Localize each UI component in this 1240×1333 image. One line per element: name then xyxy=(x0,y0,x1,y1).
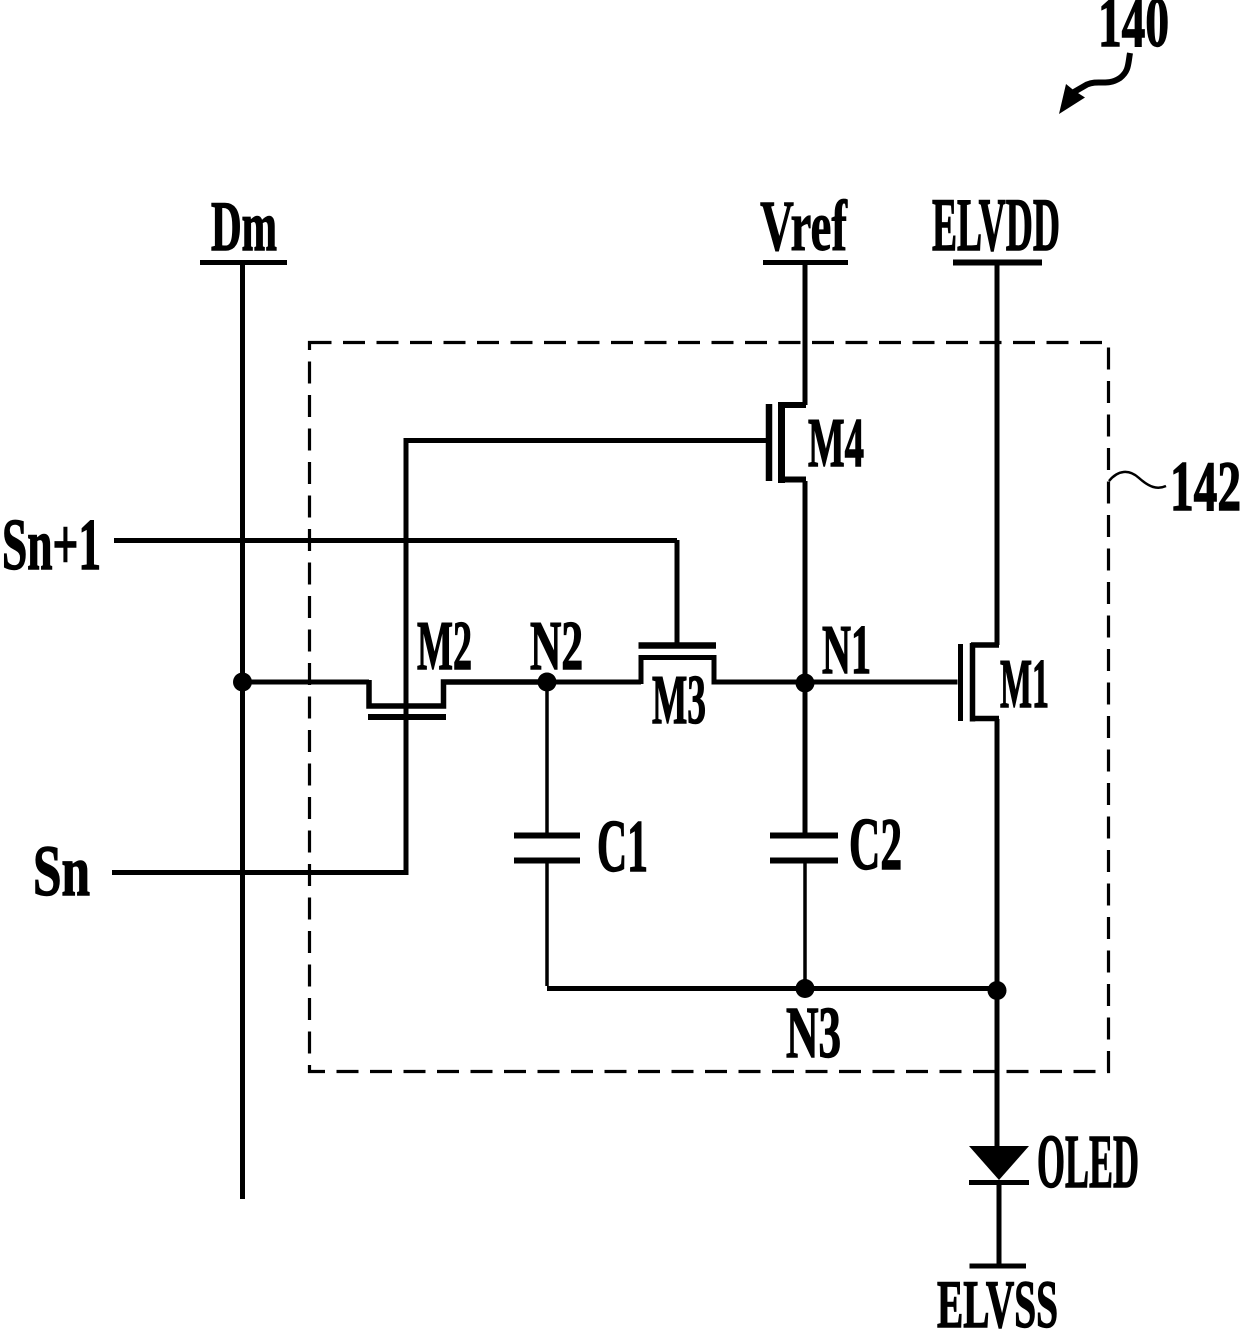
svg-text:Dm: Dm xyxy=(211,188,277,266)
svg-text:142: 142 xyxy=(1170,448,1240,526)
junction dot on Dm xyxy=(233,673,252,692)
wire row: N2 to M3 xyxy=(547,680,641,685)
capacitor C1 xyxy=(545,684,549,833)
transistor M2 xyxy=(369,680,545,706)
node N2 xyxy=(538,673,557,692)
wire OLED cathode to ELVSS xyxy=(997,1185,1002,1264)
node N1 xyxy=(796,674,815,693)
svg-text:M2: M2 xyxy=(417,608,472,685)
wire gate riser from Sn xyxy=(404,438,409,872)
Dm terminal bar xyxy=(200,260,287,265)
scan line label Sn xyxy=(33,831,90,911)
transistor M4 xyxy=(778,402,806,408)
net label Dm xyxy=(211,188,277,266)
net label ELVDD xyxy=(932,184,1060,267)
Vref terminal bar xyxy=(763,260,848,265)
svg-text:M4: M4 xyxy=(808,405,864,482)
net label Vref xyxy=(760,186,848,266)
svg-text:140: 140 xyxy=(1098,0,1169,62)
scan line label Sn+1 xyxy=(2,504,101,585)
wire Sn+1 horizontal xyxy=(114,538,677,543)
wire Sn+1 drop to M3 gate xyxy=(675,540,680,643)
wire row: N1 to M1 gate xyxy=(805,680,958,685)
capacitor C2 xyxy=(770,833,838,839)
node label 142 xyxy=(1170,448,1240,526)
wire row: Dm node to M2 source xyxy=(242,680,369,685)
svg-text:ELVSS: ELVSS xyxy=(937,1266,1058,1333)
ELVSS terminal bar xyxy=(970,1264,1027,1269)
net label ELVSS xyxy=(937,1266,1058,1333)
wire M1 source down through N3 to OLED xyxy=(995,719,1000,1146)
svg-text:C2: C2 xyxy=(849,804,902,886)
svg-text:M3: M3 xyxy=(652,662,706,739)
wire Dm data line vertical xyxy=(240,263,245,1199)
transistor M1 xyxy=(958,644,963,721)
svg-text:C1: C1 xyxy=(597,806,648,888)
svg-text:Vref: Vref xyxy=(760,186,848,266)
wire N3 row xyxy=(547,986,997,991)
svg-text:OLED: OLED xyxy=(1037,1120,1139,1204)
lead arrow to 140 xyxy=(1074,53,1130,92)
junction dot on ELVDD line xyxy=(988,981,1007,1000)
wire Sn horizontal xyxy=(112,870,409,875)
svg-text:Sn: Sn xyxy=(33,831,90,911)
transistor M3 xyxy=(641,658,796,685)
diode OLED xyxy=(969,1146,1029,1180)
wire M4 gate line xyxy=(406,438,766,443)
wire ELVDD vertical to M1 drain xyxy=(995,263,1000,645)
wire Vref vertical M4 to N1 to C2 xyxy=(803,481,808,833)
node label 140 xyxy=(1098,0,1169,62)
svg-text:N3: N3 xyxy=(786,992,841,1073)
svg-text:N1: N1 xyxy=(822,612,871,689)
svg-text:N2: N2 xyxy=(530,608,583,685)
dashed pixel boundary box 142 xyxy=(310,343,1109,1072)
squiggle leader to 142 xyxy=(1109,472,1166,488)
svg-text:M1: M1 xyxy=(1000,646,1049,723)
wire Vref vertical to M4 xyxy=(803,263,808,405)
node N3 xyxy=(796,979,815,998)
svg-text:Sn+1: Sn+1 xyxy=(2,504,101,585)
ELVDD terminal bar xyxy=(953,260,1042,266)
svg-text:ELVDD: ELVDD xyxy=(932,184,1060,267)
